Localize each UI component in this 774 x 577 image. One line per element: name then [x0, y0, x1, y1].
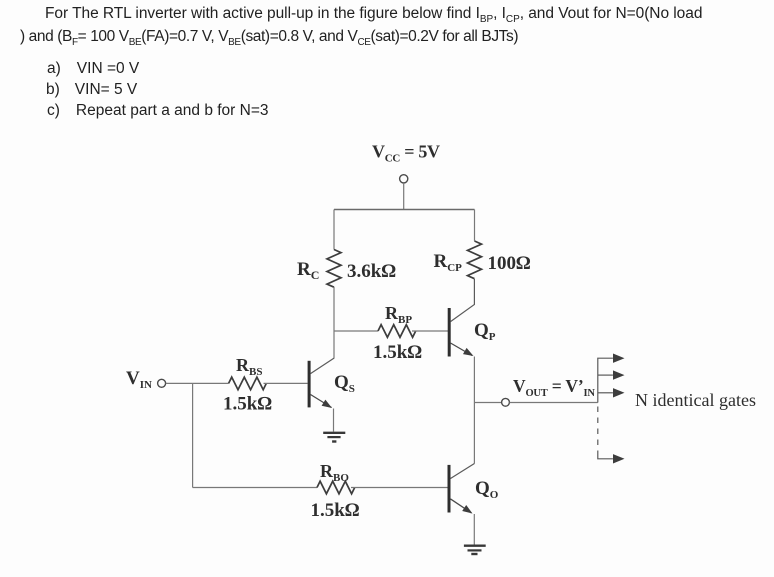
list item b — [46, 82, 137, 98]
VIN terminal circle — [158, 379, 166, 387]
transistor Qs base bar — [308, 361, 311, 408]
wire Qo emitter to ground — [473, 514, 475, 545]
problem statement line 1 — [45, 6, 702, 22]
fanout arrow 2 — [613, 370, 625, 379]
resistor RBS zigzag — [229, 377, 267, 390]
Qp collector lead — [451, 279, 475, 322]
ground under Qs — [323, 433, 345, 442]
fanout branch 2 — [598, 374, 613, 376]
fanout vertical bus — [598, 358, 613, 402]
svg-text:QO: QO — [475, 478, 499, 501]
wire top rail — [334, 209, 475, 211]
wire Vout node down to Qo collector corner — [473, 403, 475, 464]
wire RBP to Qp base — [412, 330, 448, 332]
wire RBS to Qs base — [264, 382, 308, 384]
fanout arrow 3 — [613, 388, 625, 397]
Qp emitter lead with arrow — [451, 343, 473, 356]
Qs collector lead — [311, 358, 335, 374]
Vcc terminal — [400, 175, 408, 183]
fanout arrow 1 — [613, 354, 625, 363]
wire rail to RCP — [474, 210, 476, 242]
list item c — [47, 103, 269, 119]
Vcc = 5V label — [372, 142, 440, 165]
wire Qs emitter to ground — [333, 409, 335, 432]
list item a — [47, 61, 139, 77]
wire bottom branch horizontal — [193, 487, 317, 489]
wire Vcc terminal to rail — [403, 183, 405, 210]
fanout bottom corner — [598, 453, 613, 459]
svg-text:QP: QP — [474, 320, 496, 343]
Qp emitter arrowhead — [463, 348, 474, 356]
svg-text:VCC = 5V: VCC = 5V — [372, 142, 440, 165]
resistor RCP zigzag — [468, 241, 482, 279]
fanout arrow 4 — [613, 454, 625, 463]
Qo collector lead — [451, 464, 475, 479]
svg-text:100Ω: 100Ω — [488, 253, 532, 274]
Qo emitter arrowhead — [462, 505, 472, 514]
svg-text:VIN: VIN — [126, 368, 152, 391]
transistor Qp base bar — [448, 308, 451, 357]
svg-text:1.5kΩ: 1.5kΩ — [311, 500, 360, 521]
svg-text:3.6kΩ: 3.6kΩ — [347, 261, 396, 282]
wire Qp emitter down to Vout node — [473, 357, 475, 403]
svg-text:RCP: RCP — [434, 251, 463, 274]
svg-text:QS: QS — [334, 372, 355, 395]
resistor RBP zigzag — [378, 325, 416, 338]
wire node to RBP — [334, 330, 378, 332]
problem statement line 2 — [20, 29, 518, 45]
node junction on VIN wire — [192, 383, 194, 487]
svg-text:1.5kΩ: 1.5kΩ — [223, 394, 272, 415]
Vout terminal circle — [502, 398, 510, 406]
svg-text:RBO: RBO — [320, 461, 349, 484]
resistor RBO zigzag — [317, 481, 355, 494]
transistor Qo base bar — [448, 465, 451, 513]
svg-text:RC: RC — [297, 259, 319, 282]
fanout branch 3 — [598, 392, 613, 394]
Qs emitter arrowhead — [322, 400, 332, 408]
wire Rc bottom to Qs collector corner — [333, 287, 335, 359]
wire VIN terminal to RBS — [166, 382, 229, 384]
svg-text:VOUT = V’IN: VOUT = V’IN — [513, 376, 595, 399]
svg-text:1.5kΩ: 1.5kΩ — [373, 342, 422, 363]
wire Vout terminal to load — [510, 402, 598, 404]
ground under Qo — [464, 546, 486, 554]
svg-text:RBS: RBS — [236, 355, 262, 378]
fanout dashed segment — [597, 407, 599, 454]
wire Vout node to terminal — [474, 402, 501, 404]
resistor RC zigzag — [327, 250, 341, 288]
wire RBO to Qo base — [351, 487, 448, 489]
svg-text:N identical gates: N identical gates — [635, 390, 756, 410]
Qs emitter lead with arrow — [311, 395, 332, 408]
svg-text:RBP: RBP — [385, 303, 412, 326]
wire rail to Rc — [333, 210, 335, 250]
Qo emitter lead with arrow — [451, 499, 472, 513]
